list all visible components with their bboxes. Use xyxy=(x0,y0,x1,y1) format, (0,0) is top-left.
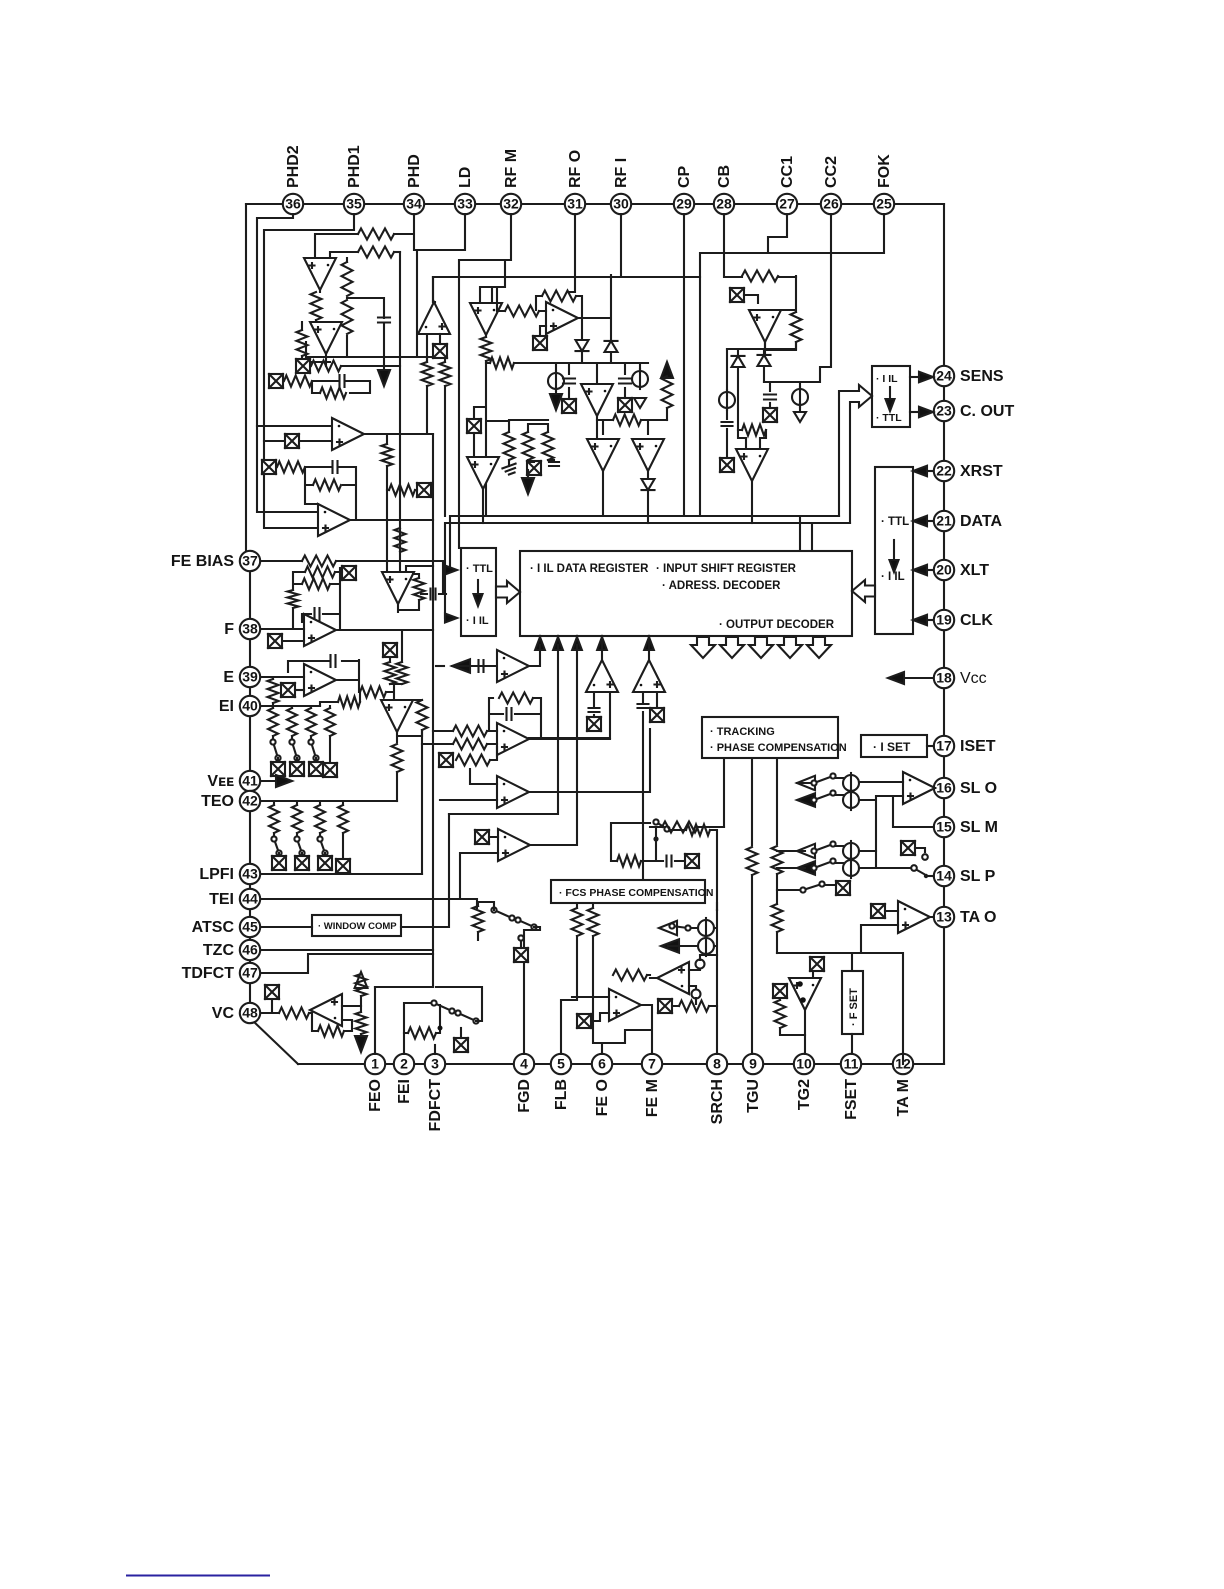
svg-text:39: 39 xyxy=(242,669,258,685)
pin 36 PHD2 xyxy=(283,194,303,214)
diode D2 xyxy=(605,341,618,352)
wire F fb xyxy=(302,568,340,630)
wire pin30 RF I net xyxy=(433,214,621,302)
resistor RB1-1 xyxy=(268,708,278,736)
wire R49 xyxy=(780,998,805,1035)
resistor R60 xyxy=(686,825,710,836)
current source CS9 xyxy=(698,936,714,956)
bus arrow TTL1 to register xyxy=(496,581,520,603)
solid arrow A3 xyxy=(355,1036,367,1052)
resistor trio R36 xyxy=(543,432,554,460)
wire phase-detector loop xyxy=(306,234,417,572)
bus arrow TTL2 to register xyxy=(852,580,875,602)
wire U8 fb xyxy=(397,700,422,742)
open arrow A7 xyxy=(797,776,815,790)
svg-text:FGD: FGD xyxy=(516,1079,533,1113)
wire pin27 CC1 net xyxy=(768,214,787,253)
pin 1 FEO xyxy=(365,1054,385,1074)
svg-text:23: 23 xyxy=(936,403,952,419)
op-amp U16 xyxy=(470,303,502,335)
capacitor C7 xyxy=(507,708,512,720)
svg-text:TG2: TG2 xyxy=(796,1079,813,1110)
svg-text:FEO: FEO xyxy=(367,1079,384,1112)
resistor R37 (in rail) xyxy=(742,271,778,282)
svg-text:VC: VC xyxy=(212,1005,235,1022)
wire U6 out xyxy=(336,630,433,662)
svg-text:46: 46 xyxy=(242,942,258,958)
resistor RB1-2 xyxy=(287,708,297,736)
svg-text:PHD2: PHD2 xyxy=(285,145,302,188)
X-switch S5 xyxy=(268,634,282,648)
svg-text:10: 10 xyxy=(796,1056,812,1072)
pin 43 LPFI xyxy=(240,864,260,884)
X-switch S6 xyxy=(281,683,295,697)
wire FCS-top row xyxy=(611,823,685,861)
pin 34 PHD xyxy=(404,194,424,214)
switch SW15 xyxy=(669,923,690,930)
IC boundary bottom edge (wire) xyxy=(298,1063,944,1065)
resistor R38 xyxy=(791,312,802,342)
X-switch SB1-3 xyxy=(309,762,323,776)
X-switch S20 xyxy=(720,458,734,472)
open arrow A9 xyxy=(797,844,815,858)
pin 35 PHD1 xyxy=(344,194,364,214)
svg-text:33: 33 xyxy=(457,196,473,212)
wire diode row xyxy=(582,352,611,363)
op-amp U2 xyxy=(310,322,342,354)
wire U13 xyxy=(460,645,577,899)
op-amp U21 xyxy=(467,457,499,489)
svg-text:21: 21 xyxy=(936,513,952,529)
wire TTL3 to pin24 SENS xyxy=(910,376,922,378)
X-switch S28 xyxy=(810,957,824,971)
resistor R54 xyxy=(490,358,514,369)
resistor R8 xyxy=(284,376,312,387)
wire U25 xyxy=(861,911,934,953)
resistor R52 xyxy=(382,444,393,466)
pin 25 FOK xyxy=(874,194,894,214)
resistor R2 xyxy=(358,247,394,258)
svg-text:36: 36 xyxy=(285,196,301,212)
wire U3 out xyxy=(364,434,433,444)
pin 40 EI xyxy=(240,696,260,716)
X-switch S34 xyxy=(685,854,699,868)
pin 3 FDFCT xyxy=(425,1054,445,1074)
svg-text:· TTL: · TTL xyxy=(881,516,909,528)
svg-text:20: 20 xyxy=(936,562,952,578)
pin 47 TDFCT xyxy=(240,963,260,983)
wire U15 left leg to FCS xyxy=(642,712,644,880)
wire long rail y=284 xyxy=(480,260,505,304)
svg-text:2: 2 xyxy=(400,1056,408,1072)
resistor R30 (RF fb) xyxy=(542,291,576,302)
wire U9 xyxy=(309,1006,361,1031)
capacitor C1 (reference) xyxy=(378,318,390,323)
X-switch S18 xyxy=(730,288,744,302)
pin 6 FE O xyxy=(592,1054,612,1074)
svg-text:41: 41 xyxy=(242,773,258,789)
resistor R50 xyxy=(422,362,433,386)
pin 11 FSET xyxy=(841,1054,861,1074)
pin 44 TEI xyxy=(240,889,260,909)
resistor R31 xyxy=(505,306,539,317)
current source CS7 xyxy=(843,858,859,878)
svg-text:FOK: FOK xyxy=(876,154,893,188)
svg-text:· ADRESS. DECODER: · ADRESS. DECODER xyxy=(662,580,781,592)
pin 13 TA O xyxy=(934,907,954,927)
X-switch S22 xyxy=(901,841,915,855)
wire PHD feedback node xyxy=(394,251,400,253)
resistor R32 xyxy=(662,376,673,408)
svg-text:ATSC: ATSC xyxy=(192,919,235,936)
op-amp U12 xyxy=(497,776,529,808)
op-amp U17 (RF amp) xyxy=(546,302,578,334)
op-amp U1 xyxy=(304,258,336,290)
svg-text:CB: CB xyxy=(716,165,733,188)
resistor R45 xyxy=(588,908,599,936)
wire R32 xyxy=(666,408,668,420)
wire pin46 TZC xyxy=(261,949,433,951)
op-amp U25 (TA O) xyxy=(898,901,930,933)
wire pin31 RF O net xyxy=(570,214,575,292)
X-switch S2b xyxy=(285,434,299,448)
resistor RB2-3 xyxy=(315,805,325,833)
small circle on U26 input a xyxy=(696,960,705,969)
resistor R25 xyxy=(499,693,533,704)
wire R43 down xyxy=(776,932,778,953)
resistor R44 xyxy=(572,908,583,936)
resistor R27 xyxy=(453,739,487,750)
wire long vertical x=433 foot xyxy=(375,986,433,988)
wire U10 riser xyxy=(436,665,444,667)
wire U21 xyxy=(482,489,484,523)
resistor R15 xyxy=(302,579,330,590)
X-switch S27 xyxy=(773,984,787,998)
svg-text:CP: CP xyxy=(676,165,693,188)
wire y953 rail xyxy=(777,953,903,1054)
pin 30 RF I xyxy=(611,194,631,214)
svg-text:SRCH: SRCH xyxy=(709,1079,726,1124)
svg-text:· TTL: · TTL xyxy=(876,412,902,424)
pin 8 SRCH xyxy=(707,1054,727,1074)
X-switch SB2-3 xyxy=(318,856,332,870)
op-amp U13 xyxy=(498,829,530,861)
pin 18 Vcc xyxy=(934,668,954,688)
switch dot SW14 xyxy=(518,935,523,940)
svg-text:TA O: TA O xyxy=(960,909,996,926)
solid arrow A6 xyxy=(527,470,529,480)
svg-text:XRST: XRST xyxy=(960,463,1003,480)
X-switch S32 xyxy=(417,483,431,497)
node dots U28 xyxy=(797,981,803,987)
resistor R53 row xyxy=(389,485,415,496)
solid arrow A10 xyxy=(797,861,815,875)
wire pin40 EI xyxy=(261,705,320,707)
svg-text:SL P: SL P xyxy=(960,868,996,885)
open arrow A2 xyxy=(355,972,368,988)
wire U22 xyxy=(765,276,796,355)
resistor R13 xyxy=(414,578,425,600)
svg-text:· TRACKING: · TRACKING xyxy=(710,726,775,738)
X-switch SB2-2 xyxy=(295,856,309,870)
svg-text:30: 30 xyxy=(613,196,629,212)
wire sw chain xyxy=(436,987,482,1021)
wire U15 xyxy=(643,637,657,708)
wire R58/R59 xyxy=(390,657,402,684)
op-amp U20 xyxy=(632,439,664,471)
svg-text:32: 32 xyxy=(503,196,519,212)
wire riser x=436 xyxy=(433,386,445,987)
diode D5 (up) xyxy=(732,356,745,367)
solid arrow A4 xyxy=(555,391,557,396)
wire pin1 FEO riser xyxy=(374,987,376,1054)
capacitor C5 xyxy=(315,608,320,620)
wire pin20 XLT to TTL2 xyxy=(921,569,933,571)
resistor R12 xyxy=(302,556,336,567)
wire R48 xyxy=(672,1005,717,1007)
X-switch S21 xyxy=(836,881,850,895)
resistor R40 xyxy=(662,822,698,833)
X-switch S17 xyxy=(527,461,541,475)
wire U11 fb xyxy=(489,698,610,739)
resistor R29 xyxy=(481,337,492,361)
wire U1-R5-U2 xyxy=(316,290,320,322)
wire pin12 riser xyxy=(902,1054,904,1064)
wire stage1 fb xyxy=(257,381,370,441)
wire pin34 PHD net xyxy=(394,214,465,357)
block: IIL data register / input shift register / address decoder / output decoder xyxy=(520,551,852,636)
bus arrow to IIL/TTL3 (bent) xyxy=(839,385,872,523)
resistor trio R35 xyxy=(523,432,534,460)
svg-text:C. OUT: C. OUT xyxy=(960,403,1014,420)
wire node row y363 xyxy=(486,363,648,374)
wire R19 out xyxy=(396,772,398,801)
svg-text:TZC: TZC xyxy=(203,942,235,959)
op-amp U6 (F) xyxy=(304,614,336,646)
wire pin26 CC2 net xyxy=(800,214,831,382)
wire SRCH rows xyxy=(668,910,717,1054)
svg-text:· I IL: · I IL xyxy=(876,373,898,385)
current source CS1 xyxy=(548,371,564,391)
wire bank1 top xyxy=(273,706,330,708)
svg-text:PHD: PHD xyxy=(406,154,423,188)
wire pin25 FOK / pin27 CC1 net xyxy=(700,214,884,277)
wire pin28 CB net xyxy=(724,214,796,277)
svg-text:40: 40 xyxy=(242,698,258,714)
switch SW10 contact xyxy=(922,854,928,860)
svg-text:RF M: RF M xyxy=(503,149,520,188)
wire U23 out xyxy=(751,481,753,523)
capacitor C3 xyxy=(333,461,338,473)
solid arrow A12 xyxy=(661,939,679,953)
X-switch S19 xyxy=(763,408,777,422)
resistor R14 xyxy=(305,567,335,578)
pin 12 TA M xyxy=(893,1054,913,1074)
svg-text:SENS: SENS xyxy=(960,368,1004,385)
wire R52 down xyxy=(386,466,388,572)
register input arrows xyxy=(535,637,545,650)
wire pin19 CLK to TTL2 xyxy=(921,619,933,621)
X-switch S11 xyxy=(587,717,601,731)
block: I SET xyxy=(861,735,927,757)
resistor R23 xyxy=(356,1012,367,1034)
resistor R16 xyxy=(360,687,386,698)
resistor R49 xyxy=(775,1000,786,1028)
wire R24 xyxy=(404,1005,440,1033)
op-amp U18 xyxy=(581,384,613,416)
wire pin2 FEI riser xyxy=(404,1003,434,1054)
switch SW2-1 xyxy=(271,836,281,855)
svg-text:LD: LD xyxy=(457,167,474,188)
svg-text:· WINDOW COMP: · WINDOW COMP xyxy=(318,921,397,932)
wire R33 row xyxy=(597,420,667,434)
wire pin42 TEO xyxy=(261,800,397,802)
wire U19/U20 out xyxy=(603,471,648,516)
capacitor C8 xyxy=(589,708,600,712)
wire pin32 RF M net xyxy=(459,214,511,548)
svg-text:EI: EI xyxy=(219,698,234,715)
wire diode legs xyxy=(738,349,764,430)
block: IIL-to-TTL for SENS/C.OUT (U-TTL3) xyxy=(872,366,910,427)
svg-text:SL O: SL O xyxy=(960,780,997,797)
capacitor C11 xyxy=(619,379,631,384)
wire R39 xyxy=(738,430,766,449)
svg-text:PHD1: PHD1 xyxy=(346,145,363,188)
op-amp U5 xyxy=(382,572,414,604)
switch SW6 xyxy=(811,790,835,802)
X-switch S15 xyxy=(618,398,632,412)
pin 45 ATSC xyxy=(240,917,260,937)
resistor R21 xyxy=(318,1026,344,1037)
wire pin8 srch stub xyxy=(716,903,718,910)
svg-text:6: 6 xyxy=(598,1056,606,1072)
resistor R58 xyxy=(385,662,396,684)
footer rule xyxy=(127,1575,269,1577)
svg-text:· I IL: · I IL xyxy=(881,571,905,583)
switch SW11 lever xyxy=(917,870,924,874)
capacitor C12 xyxy=(549,462,559,466)
pin 32 RF M xyxy=(501,194,521,214)
X-switch S26 xyxy=(577,1014,591,1028)
resistor R1 xyxy=(358,229,394,240)
X-switch S1 xyxy=(296,359,310,373)
resistor R24 xyxy=(408,1028,436,1039)
svg-text:45: 45 xyxy=(242,919,258,935)
wire TTL3 to pin23 C.OUT xyxy=(910,411,922,413)
wire riser x=422 xyxy=(422,334,427,874)
resistor R18 xyxy=(417,700,428,730)
resistor R4 xyxy=(342,300,353,334)
wire U12 xyxy=(440,645,650,814)
wire S22 xyxy=(915,848,925,852)
wire U14 xyxy=(529,637,610,738)
wire U30 vertex xyxy=(433,277,435,302)
resistor R10 xyxy=(277,462,305,473)
IC boundary top edge (wire) xyxy=(246,203,944,205)
wire U27 xyxy=(572,997,652,1054)
op-amp U19 xyxy=(587,439,619,471)
pin 28 CB xyxy=(714,194,734,214)
op-amp U26 (left) xyxy=(657,962,689,994)
svg-text:48: 48 xyxy=(242,1005,258,1021)
X-switch S25 xyxy=(658,999,672,1013)
wire FCS inputs xyxy=(577,903,593,908)
resistor RB2-1 xyxy=(269,805,279,833)
output decoder arrows xyxy=(691,637,715,658)
diode D4 xyxy=(642,479,655,490)
svg-text:17: 17 xyxy=(936,738,952,754)
wire bus y=516 with TTL1 feeder xyxy=(450,516,839,570)
op-amp U3 xyxy=(332,418,364,450)
svg-text:FLB: FLB xyxy=(553,1079,570,1110)
current source CS4 xyxy=(843,773,859,793)
resistor RB1-4 xyxy=(325,708,335,736)
ground G1 xyxy=(508,460,510,466)
wire EI chain xyxy=(320,684,394,706)
svg-text:ISET: ISET xyxy=(960,738,996,755)
svg-text:FSET: FSET xyxy=(843,1079,860,1120)
svg-text:DATA: DATA xyxy=(960,513,1003,530)
resistor trio R34 xyxy=(504,432,515,460)
X-switch S12 xyxy=(650,708,664,722)
wire tracking outputs xyxy=(707,758,724,827)
svg-text:Vᴇᴇ: Vᴇᴇ xyxy=(207,773,234,790)
svg-text:E: E xyxy=(223,669,234,686)
arrow Vee xyxy=(261,780,278,782)
wire I SET to pin 17 xyxy=(927,745,934,747)
svg-text:18: 18 xyxy=(936,670,952,686)
pin 26 CC2 xyxy=(821,194,841,214)
wire FGD switches xyxy=(478,902,540,1054)
open diode D7 xyxy=(794,412,806,422)
svg-text:25: 25 xyxy=(876,196,892,212)
svg-text:42: 42 xyxy=(242,793,258,809)
wire U24 out xyxy=(934,787,935,789)
pin 5 FLB xyxy=(551,1054,571,1074)
capacitor C15 xyxy=(667,856,672,867)
svg-text:CLK: CLK xyxy=(960,612,993,629)
resistor R43 xyxy=(772,904,783,932)
wire diode top row xyxy=(727,342,796,349)
capacitor C2 xyxy=(340,375,345,387)
wire row y382 xyxy=(764,382,800,391)
current source CS3 xyxy=(719,390,735,410)
wire pin35 PHD1 net xyxy=(264,214,354,528)
pin 39 E xyxy=(240,667,260,687)
X-switch S24 xyxy=(514,948,528,962)
wire pin15 SL M xyxy=(893,796,934,827)
pin 31 RF O xyxy=(565,194,585,214)
pin 19 CLK xyxy=(934,610,954,630)
X-switch S9 xyxy=(439,753,453,767)
wire pin21 DATA to TTL2 xyxy=(921,520,933,522)
wire TG2 line xyxy=(776,874,778,904)
svg-text:31: 31 xyxy=(567,196,583,212)
resistor R42 xyxy=(772,846,783,874)
X-switch S31 xyxy=(433,344,447,358)
IC boundary bottom-left diagonal (wire) xyxy=(252,1020,298,1064)
switch SW16 xyxy=(653,819,669,831)
pin 9 TGU xyxy=(743,1054,763,1074)
block: F SET xyxy=(842,971,863,1034)
capacitor C14 (battery) xyxy=(722,422,733,426)
svg-text:· TTL: · TTL xyxy=(466,563,493,575)
pin 24 SENS xyxy=(934,366,954,386)
wire R60 xyxy=(670,830,717,910)
svg-text:FE BIAS: FE BIAS xyxy=(171,553,234,570)
wire S1 node xyxy=(341,357,446,366)
switch SW11 contact xyxy=(911,865,917,871)
